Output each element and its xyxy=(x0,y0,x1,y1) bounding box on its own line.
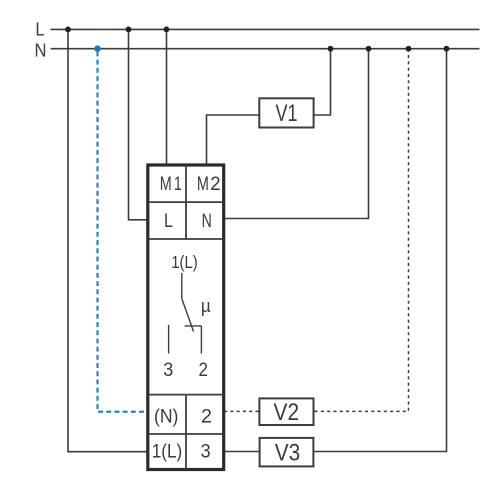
switch pole wire xyxy=(181,273,183,299)
net N bus wire xyxy=(51,48,480,50)
wire L to terminal M1 xyxy=(166,29,168,165)
svg-text:(N): (N) xyxy=(154,405,179,427)
device body outline xyxy=(148,165,224,470)
svg-text:3: 3 xyxy=(163,360,173,381)
svg-text:V1: V1 xyxy=(276,100,298,127)
junction N / V3 xyxy=(444,46,450,52)
svg-text:µ: µ xyxy=(201,296,211,316)
svg-text:1(L): 1(L) xyxy=(171,252,198,272)
box V3 xyxy=(260,438,314,467)
svg-text:1: 1 xyxy=(174,173,182,195)
blue junction N / (N) xyxy=(94,45,101,52)
blue dashed wire N bus to terminal (N) xyxy=(98,52,147,412)
box V1 xyxy=(259,98,313,127)
svg-text:V2: V2 xyxy=(274,399,300,426)
divider above (N)/2 row xyxy=(150,394,223,396)
vertical divider bottom rows xyxy=(185,395,187,470)
divider between (N)/2 and 1(L)/3 rows xyxy=(150,433,223,435)
svg-text:2: 2 xyxy=(210,173,220,195)
wire L to terminal L xyxy=(129,29,148,219)
svg-text:2: 2 xyxy=(201,405,212,427)
junction N / V2 xyxy=(406,46,412,52)
svg-text:N: N xyxy=(202,210,212,232)
switch arm xyxy=(182,299,194,332)
junction N / terminal N xyxy=(366,46,372,52)
svg-text:3: 3 xyxy=(201,441,211,463)
svg-text:L: L xyxy=(35,19,44,40)
vertical divider top rows xyxy=(185,167,187,239)
svg-text:1(L): 1(L) xyxy=(152,441,183,463)
dashed wire terminal 2 to V2 left xyxy=(224,410,259,412)
svg-text:M: M xyxy=(160,173,172,195)
switch contact 3 stub xyxy=(168,325,170,354)
wire V1 right to N bus xyxy=(315,49,331,115)
svg-text:V3: V3 xyxy=(275,439,301,466)
divider under M1/M2 row xyxy=(150,201,223,203)
svg-text:L: L xyxy=(164,210,173,232)
junction N / V1 xyxy=(328,46,334,52)
wire M2 to V1 left xyxy=(207,115,259,165)
svg-text:2: 2 xyxy=(198,360,208,381)
junction L / wire 1 xyxy=(65,27,71,33)
svg-text:N: N xyxy=(35,40,47,61)
svg-text:M: M xyxy=(197,173,209,195)
dashed wire V2 right to N bus xyxy=(315,49,409,412)
wire terminal N to N bus xyxy=(224,49,369,219)
wire terminal 3 to V3 left xyxy=(224,451,259,453)
switch contact crossbar xyxy=(185,325,202,327)
junction L / wire M1 xyxy=(164,27,170,33)
switch contact 2 stub xyxy=(200,326,202,354)
junction L / wire 2 xyxy=(126,27,132,33)
wire L to terminal 1(L) bottom xyxy=(68,29,148,451)
wire V3 right to N bus xyxy=(314,49,446,452)
divider under L/N row xyxy=(150,238,223,240)
net L bus wire xyxy=(51,28,480,30)
box V2 xyxy=(259,398,313,425)
